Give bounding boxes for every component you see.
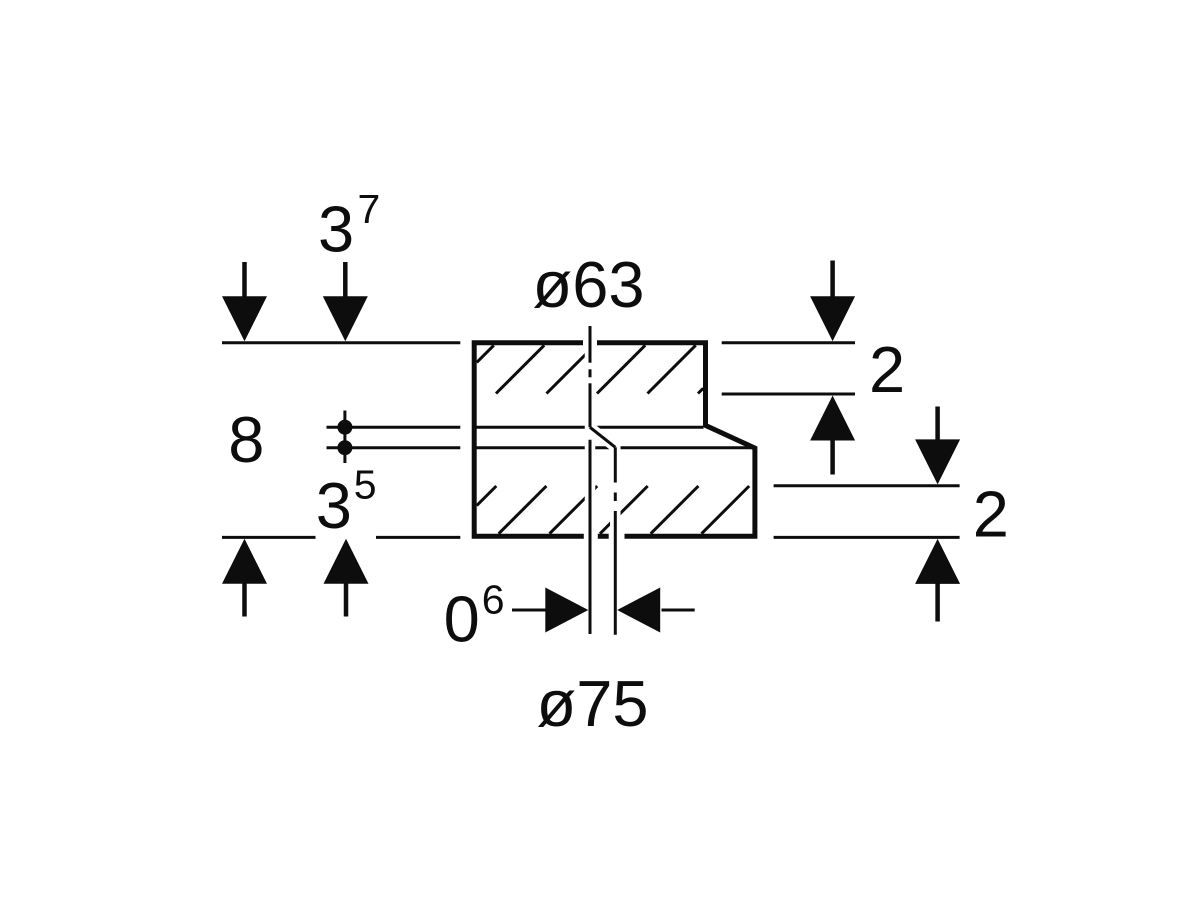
datum dots dim 8 xyxy=(337,420,352,456)
arrow down dim 3.7 xyxy=(323,262,368,341)
arrow right 0.6 xyxy=(545,588,588,633)
datum tick xyxy=(343,411,346,464)
datum leader A xyxy=(327,426,461,429)
datum leader B xyxy=(327,446,461,449)
arrow up dim 3.5 xyxy=(324,539,369,617)
dim lines lower right (2) xyxy=(774,484,960,487)
arrow down lower right xyxy=(915,407,960,485)
svg-text:7: 7 xyxy=(358,186,381,232)
centerline o63 (dash-dot) xyxy=(589,326,592,427)
svg-text:2: 2 xyxy=(869,333,905,406)
svg-text:8: 8 xyxy=(228,403,264,476)
inner shoulder line A xyxy=(476,426,704,429)
centerline o75 (dash-dot) xyxy=(614,447,617,634)
centerline white casings xyxy=(590,326,615,635)
svg-text:6: 6 xyxy=(482,576,505,622)
svg-text:ø75: ø75 xyxy=(537,667,649,740)
extension line offset 0.6 xyxy=(589,440,592,634)
arrow down upper right xyxy=(810,261,855,342)
dim lines upper right (2) xyxy=(722,341,855,344)
body outline xyxy=(474,343,755,536)
svg-text:ø63: ø63 xyxy=(533,248,645,321)
arrow up upper right xyxy=(810,396,855,475)
centerline jog xyxy=(590,427,615,447)
dim line bottom left xyxy=(222,536,316,539)
svg-text:3: 3 xyxy=(316,469,352,542)
hatch lower wall xyxy=(477,486,750,534)
svg-text:3: 3 xyxy=(318,193,354,266)
svg-text:5: 5 xyxy=(354,462,377,508)
dim line 0.6 right leader xyxy=(662,609,695,612)
arrow up dim 8 xyxy=(222,539,267,617)
dim line 0.6 left leader xyxy=(512,609,547,612)
hatch upper wall xyxy=(477,345,704,393)
dim line top left (total height upper datum) xyxy=(222,341,460,344)
arrow left 0.6 xyxy=(617,588,660,633)
arrow up lower right xyxy=(915,539,960,622)
arrow down dim 8 xyxy=(222,262,267,341)
svg-text:2: 2 xyxy=(973,477,1009,550)
svg-text:0: 0 xyxy=(444,582,480,655)
inner shoulder line B xyxy=(476,446,753,449)
